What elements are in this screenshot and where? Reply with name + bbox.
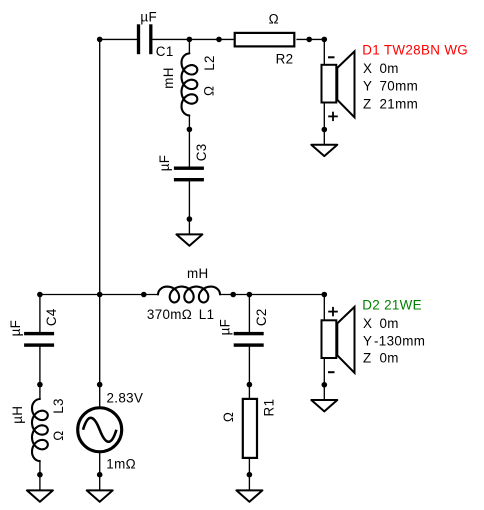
wire middle horizontal rail	[40, 294, 159, 296]
wire top node to C1	[100, 38, 137, 40]
node C4-L3	[37, 382, 43, 388]
svg-text:µF: µF	[140, 9, 157, 24]
capacitor C4	[24, 332, 54, 347]
svg-text:Ω: Ω	[221, 412, 236, 422]
svg-text:R1: R1	[261, 399, 276, 417]
D2 minus terminal label	[328, 371, 335, 373]
wire L2 lead top	[188, 39, 190, 54]
wire down to D1	[323, 39, 325, 64]
wire L3 to ground	[39, 461, 41, 490]
svg-text:C1: C1	[156, 44, 174, 59]
capacitor C2	[234, 332, 264, 347]
svg-text:L1: L1	[199, 307, 215, 322]
node L3 ground	[37, 472, 43, 478]
svg-text:L2: L2	[202, 55, 217, 71]
junction C2 top	[247, 292, 253, 298]
svg-text:R2: R2	[276, 51, 294, 66]
svg-text:mH: mH	[187, 266, 209, 281]
svg-text:-130mm: -130mm	[374, 333, 425, 348]
ground L3	[27, 490, 53, 501]
svg-text:D1 TW28BN WG: D1 TW28BN WG	[362, 43, 468, 58]
junction D1 top	[322, 37, 328, 43]
wire C2 to R1	[248, 346, 250, 398]
junction top-left	[97, 37, 103, 43]
wire D1 to ground	[323, 103, 325, 145]
svg-text:Z: Z	[363, 96, 372, 111]
node R1 ground	[247, 472, 253, 478]
wire C4 to L3	[39, 346, 41, 399]
ground source	[87, 490, 113, 501]
svg-text:mH: mH	[161, 67, 176, 89]
inductor L2	[181, 53, 197, 115]
wire C3 to ground	[188, 181, 190, 234]
node C2-R1	[247, 382, 253, 388]
node D1 bottom	[322, 127, 328, 133]
svg-text:D2 21WE: D2 21WE	[362, 298, 422, 313]
junction L2 top	[187, 37, 193, 43]
svg-text:µF: µF	[8, 320, 23, 337]
node D2 bottom	[322, 382, 328, 388]
svg-text:Z: Z	[363, 351, 372, 366]
svg-text:Ω: Ω	[51, 430, 66, 440]
resistor R2	[235, 33, 295, 47]
resistor R1	[243, 399, 257, 458]
wire L1 right to D2 branch	[220, 294, 325, 296]
wire C2 branch down	[248, 295, 250, 333]
wire C4 branch down	[39, 295, 41, 333]
svg-text:0m: 0m	[380, 61, 399, 76]
svg-text:21mm: 21mm	[380, 96, 419, 111]
node C1-R2	[216, 37, 222, 43]
ground C3	[176, 234, 202, 245]
speaker D1	[322, 51, 355, 117]
wire R2 to speaker D1 branch	[296, 38, 324, 40]
wire main bus vertical	[99, 39, 101, 407]
svg-text:370mΩ: 370mΩ	[147, 307, 192, 322]
svg-text:µF: µF	[218, 319, 233, 336]
node L1 left	[141, 292, 147, 298]
inductor L1	[158, 287, 220, 303]
junction D2 top	[322, 292, 328, 298]
ground D2	[311, 400, 337, 411]
svg-text:C3: C3	[194, 143, 209, 161]
voltage source V1	[78, 408, 122, 452]
ground R1	[236, 490, 262, 501]
junction bus middle	[97, 292, 103, 298]
node C4 top corner	[37, 292, 43, 298]
wire source to ground	[99, 453, 101, 490]
svg-text:70mm: 70mm	[380, 79, 419, 94]
svg-text:Y: Y	[363, 333, 372, 348]
node R2 right	[306, 37, 312, 43]
speaker D2	[322, 307, 355, 373]
svg-text:X: X	[363, 316, 372, 331]
node L2-C3	[187, 127, 193, 133]
svg-text:Ω: Ω	[202, 86, 217, 96]
node source ground	[97, 472, 103, 478]
capacitor C1	[137, 24, 153, 54]
capacitor C3	[174, 167, 204, 182]
svg-text:L3: L3	[51, 398, 66, 414]
svg-text:C4: C4	[44, 308, 59, 326]
wire C1 to R2	[152, 38, 233, 40]
svg-text:µH: µH	[10, 406, 25, 424]
svg-text:2.83V: 2.83V	[107, 391, 144, 406]
node L1 right	[230, 292, 236, 298]
wire R1 to ground	[248, 459, 250, 490]
svg-text:Y: Y	[363, 79, 372, 94]
svg-text:X: X	[363, 61, 372, 76]
svg-text:C2: C2	[254, 308, 269, 326]
ground D1	[311, 145, 337, 156]
D1 minus terminal label	[328, 56, 335, 58]
D1 plus terminal label	[328, 112, 338, 121]
D2 plus terminal label	[328, 307, 338, 316]
svg-text:0m: 0m	[380, 316, 399, 331]
wire L2 bottom to C3	[188, 115, 190, 167]
wire D2 to ground	[323, 359, 325, 400]
svg-text:Ω: Ω	[269, 12, 279, 27]
node source top	[97, 382, 103, 388]
svg-text:0m: 0m	[380, 351, 399, 366]
inductor L3	[32, 399, 48, 461]
wire down to D2	[323, 295, 325, 321]
svg-text:µF: µF	[157, 155, 172, 172]
node C3 ground	[187, 216, 193, 222]
svg-text:1mΩ: 1mΩ	[106, 457, 136, 472]
